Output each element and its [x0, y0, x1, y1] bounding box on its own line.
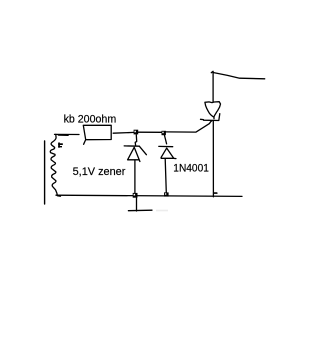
- svg-text:kb 200ohm: kb 200ohm: [64, 113, 117, 125]
- svg-text:5,1V zener: 5,1V zener: [73, 166, 126, 178]
- svg-text:1N4001: 1N4001: [173, 163, 209, 175]
